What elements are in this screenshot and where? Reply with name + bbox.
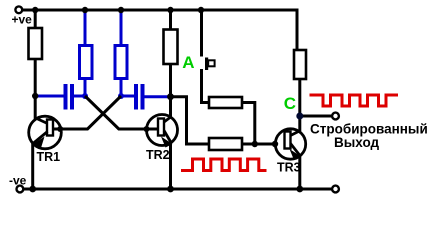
resistor R6 body (horizontal bottom) — [209, 138, 242, 150]
node: base junction of TR3 — [252, 141, 258, 147]
wire: TR3 emitter lead — [298, 155, 301, 189]
wire: blue lead base resistor R3 — [120, 10, 123, 96]
wire: cross-coupling R2 bottom to TR2 base — [85, 96, 159, 129]
terminal -ve — [17, 186, 24, 193]
node: cap C1 to TR1 collector junction — [32, 93, 38, 99]
svg-text:-ve: -ve — [9, 174, 27, 188]
transistor TR2 base bar — [158, 119, 164, 136]
transistor TR2 emitter arrow — [161, 137, 173, 148]
wire: A gate line bottom segment — [200, 69, 203, 104]
switch box at node A — [208, 60, 214, 66]
terminal: output upper — [332, 113, 339, 120]
terminal +ve — [15, 6, 22, 13]
node: TR1 base entry dot — [57, 126, 63, 132]
terminal: output lower — [332, 186, 339, 193]
node: cap C2 to TR2 collector junction — [167, 93, 174, 100]
transistor TR2 circle — [147, 115, 178, 146]
transistor TR3 circle — [275, 129, 305, 159]
wire: A gate line top segment — [200, 10, 203, 57]
wire: R6 right lead to TR3 base — [242, 143, 275, 146]
capacitor C2 left wire — [121, 95, 134, 98]
svg-text:A: A — [182, 53, 194, 72]
transistor TR3 emitter diagonal — [291, 144, 300, 156]
wire: right lead of R5 down to base node — [242, 103, 255, 145]
capacitor C2 plates — [134, 84, 138, 110]
node: TR2 emitter on rail — [167, 186, 174, 193]
node: TR2 base entry dot — [144, 126, 150, 132]
transistor TR1 collector diagonal — [35, 118, 48, 124]
transistor TR3 base bar — [285, 132, 291, 149]
wire: TR3 collector lead — [298, 79, 301, 132]
transistor TR1 emitter arrow — [32, 137, 45, 149]
capacitor C1 plates — [64, 84, 68, 110]
wire: TR2 emitter lead — [169, 141, 172, 189]
wire: left lead of gating resistor R5 — [202, 101, 210, 104]
wire: TR2 collector lead — [169, 10, 172, 119]
svg-text:TR3: TR3 — [277, 161, 301, 175]
node: TR3 emitter on rail — [296, 186, 303, 193]
transistor TR2 emitter diagonal — [164, 131, 171, 143]
node: C junction dot — [296, 113, 303, 120]
transistor TR3 emitter arrow — [290, 149, 302, 160]
transistor TR1 emitter diagonal — [33, 132, 48, 144]
transistor TR1 circle — [29, 116, 62, 149]
svg-text:TR2: TR2 — [146, 148, 170, 162]
svg-text:+ve: +ve — [12, 13, 33, 27]
capacitor C1 left wire — [35, 95, 63, 98]
node: TR1 emitter on rail — [29, 186, 36, 193]
transistor TR1 base bar — [47, 120, 53, 136]
svg-text:C: C — [284, 94, 296, 113]
resistor R3 (blue) body — [115, 46, 127, 79]
svg-text:TR1: TR1 — [37, 150, 61, 164]
wire: TR2 collector to R6 left lead — [171, 97, 210, 144]
switch bar at node A — [205, 58, 208, 71]
wire: top +ve rail — [23, 10, 297, 50]
svg-text:Выход: Выход — [334, 135, 380, 150]
waveform: strobed output square wave (red) — [310, 95, 399, 106]
resistor R1 body — [29, 28, 43, 59]
transistor TR3 collector diagonal — [291, 131, 300, 136]
junction dots on top rail — [32, 7, 38, 13]
waveform: TR2 collector square wave (red) — [181, 159, 267, 171]
wire: TR1 emitter lead — [31, 142, 34, 189]
transistor TR2 collector diagonal — [164, 117, 171, 122]
resistor R4 body — [164, 30, 178, 65]
wire: cross-coupling R3 bottom to TR1 base — [54, 96, 121, 129]
resistor R2 (blue) body — [80, 46, 93, 79]
wire: output line to terminal — [300, 115, 332, 118]
resistor R7 body (TR3 collector load) — [294, 50, 306, 79]
node: blue dot under R3 — [118, 93, 124, 99]
wire: TR1 collector lead — [34, 10, 37, 122]
resistor R5 body (horizontal top) — [209, 97, 242, 108]
node: TR3 base entry dot — [272, 141, 278, 147]
wire: blue lead base resistor R2 — [84, 10, 87, 96]
capacitor C1 right wire — [74, 95, 85, 98]
node: blue dot under R2 — [82, 93, 88, 99]
wire: bottom -ve rail — [24, 188, 332, 191]
capacitor C2 right wire — [145, 95, 171, 98]
